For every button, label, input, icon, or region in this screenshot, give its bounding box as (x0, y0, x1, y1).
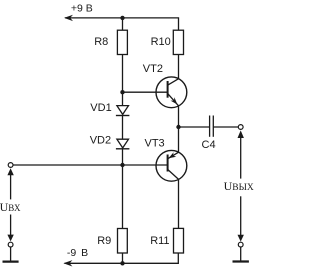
svg-text:VD2: VD2 (90, 134, 111, 146)
label C4 (202, 139, 216, 151)
svg-text:+9 В: +9 В (71, 3, 93, 15)
label VD1 (90, 102, 111, 114)
wire VD2 to input node (122, 149, 124, 165)
label VD2 (90, 134, 111, 146)
resistor R9 (118, 229, 128, 254)
svg-text:VT3: VT3 (145, 138, 165, 150)
wire Uvx lower segment (10, 215, 12, 236)
node VT2 base junction (120, 90, 124, 94)
resistor R11 (174, 228, 184, 253)
svg-text:VD1: VD1 (90, 102, 111, 114)
label R9 (97, 235, 111, 247)
label R10 (151, 36, 171, 48)
wire input node to R9 (122, 165, 124, 229)
-9V arrow (63, 260, 72, 266)
wire VT2 collector to R10 (178, 55, 180, 79)
svg-text:R8: R8 (94, 36, 108, 48)
wire VT3 base / input line (13, 164, 168, 166)
wire -9V bottom rail (65, 253, 179, 263)
wire C4 right (213, 126, 238, 128)
resistor R8 (117, 30, 127, 54)
wire VD1 to VD2 (122, 116, 124, 140)
terminal output bottom (238, 242, 243, 247)
label R11 (150, 235, 169, 247)
svg-text:UВХ: UВХ (0, 200, 21, 214)
node C4 junction (176, 125, 180, 129)
terminal input bottom (8, 242, 13, 247)
ground right (233, 247, 249, 262)
terminal output top (238, 125, 243, 130)
diode VD1 (116, 106, 129, 116)
arrow Uvyx up (238, 130, 244, 138)
wire VT3 collector to R11 (178, 179, 180, 228)
node bottom junction (120, 261, 124, 265)
terminal input top (8, 163, 13, 168)
capacitor C4 (210, 116, 214, 137)
arrow Uvyx down (238, 235, 244, 242)
node top junction (120, 16, 124, 20)
transistor VT3 (156, 150, 187, 181)
svg-text:R9: R9 (97, 235, 111, 247)
transistor VT2 (156, 77, 187, 108)
wire R8 bottom to diode chain (122, 55, 124, 106)
svg-text:-9 В: -9 В (67, 247, 88, 259)
ground left (3, 247, 19, 262)
label Uвх (0, 200, 21, 214)
wire Uvx upper segment (10, 175, 12, 199)
svg-text:VT2: VT2 (143, 63, 163, 75)
wire emitter node to VT3 emitter (178, 127, 180, 152)
svg-text:UВЫХ: UВЫХ (224, 179, 254, 193)
label -9 В (67, 247, 88, 259)
svg-text:C4: C4 (202, 139, 216, 151)
+9V arrow (64, 15, 73, 21)
label R8 (94, 36, 108, 48)
label Uвых (224, 179, 254, 193)
node input junction (120, 163, 124, 167)
svg-text:R10: R10 (151, 36, 171, 48)
label +9 В (71, 3, 93, 15)
wire VT2 base (123, 91, 168, 93)
diode VD2 (116, 139, 129, 149)
label VT2 (143, 63, 163, 75)
wire +9V top rail (65, 18, 179, 30)
wire R8 top stub (122, 18, 124, 30)
wire Uvyx upper segment (240, 138, 242, 179)
svg-text:R11: R11 (150, 235, 169, 247)
arrow Uvx up (7, 168, 13, 175)
resistor R10 (173, 30, 183, 54)
wire R9 bottom stub (122, 253, 124, 263)
wire Uvyx lower segment (240, 196, 242, 235)
wire VT2 emitter down (178, 106, 180, 127)
wire C4 left (179, 126, 210, 128)
arrow Uvx down (7, 235, 13, 242)
label VT3 (145, 138, 165, 150)
